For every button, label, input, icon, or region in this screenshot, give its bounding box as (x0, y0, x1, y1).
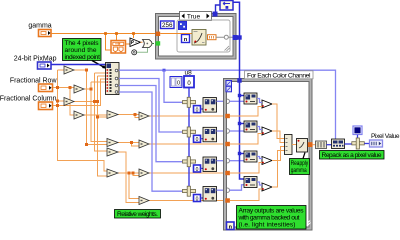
tunnel ring 4 (225, 188, 229, 192)
wire b4 to X4 (201, 197, 204, 199)
wire X4 to tunnel (217, 189, 226, 191)
svg-text:The 4 pixels: The 4 pixels (65, 40, 100, 47)
wire navy to cross5 (357, 135, 359, 138)
multiply node M1 (262, 100, 272, 108)
wire repack to cross5 (345, 143, 352, 145)
triangle node D2 (139, 140, 149, 148)
callout arrow (92, 61, 107, 69)
wire tunnel to convert (313, 144, 316, 146)
svg-text:For Each Color Channel: For Each Color Channel (247, 72, 311, 79)
unbundle node 4 pixels (106, 63, 120, 95)
wire X2 to tunnel (217, 130, 226, 132)
compare node (143, 40, 153, 48)
svg-text:0: 0 (196, 167, 199, 173)
triangle node B4 (74, 111, 84, 119)
case left tunnel gamma (156, 32, 161, 36)
svg-text:gamma: gamma (291, 168, 308, 174)
tunnel ring 2 (225, 129, 229, 133)
constant u8 array 0 (170, 76, 194, 88)
wire X1 to tunnel (217, 100, 226, 102)
coercion ring (224, 35, 228, 39)
for loop border (224, 79, 313, 231)
wire gamma (51, 34, 156, 51)
multiply node M3 (262, 157, 272, 165)
svg-text:0: 0 (196, 137, 199, 143)
lut icon I4 (244, 177, 257, 188)
wire u8 chain (188, 88, 190, 186)
svg-text:Array outputs are values: Array outputs are values (239, 208, 305, 215)
comment Array outputs (237, 206, 307, 230)
junction LUT I2 (238, 122, 244, 125)
svg-text:around the: around the (65, 47, 97, 54)
svg-text:gamma: gamma (28, 23, 51, 30)
inner frame (177, 20, 230, 52)
wire I2 to M2 (257, 127, 262, 130)
svg-text:Relative weights.: Relative weights. (117, 211, 158, 218)
wire I4 to M4 (257, 182, 262, 185)
junction dots gamma wire (104, 32, 135, 35)
wire add to gamma node (292, 144, 297, 146)
triangle node B2 (74, 85, 84, 93)
wire 24-bit PixMap (51, 64, 106, 66)
wire A1 output to v2 (74, 70, 107, 145)
triangle inner marks (66, 69, 143, 201)
wire FR branch to B4 (70, 88, 74, 116)
wire cross5 to indicator (364, 143, 369, 145)
wire A1 input (58, 69, 65, 71)
wire power to compare (141, 41, 143, 43)
constant 256 (161, 21, 175, 29)
wire I1 to M1 (257, 99, 262, 103)
wire FC (53, 79, 106, 106)
multiply node M2 (262, 127, 272, 135)
DBL output glyph (208, 35, 217, 40)
node cross Q2 (183, 127, 196, 137)
orange tunnel weight3 (225, 171, 230, 175)
wire tunnel2 to I2 (230, 130, 245, 132)
triangle node D1 (139, 112, 149, 120)
wire v1 FC trunk (58, 70, 108, 171)
junction LUT main (237, 35, 241, 39)
wire b1 to X1 (201, 108, 204, 110)
cluster icon (bundle weights) (111, 41, 126, 54)
for loop label box (245, 71, 314, 80)
wire M4 out (272, 151, 285, 188)
triangle node C2 (107, 139, 118, 147)
wire weight4 D4 out (149, 200, 226, 202)
wire weight4 to M4 (230, 189, 262, 201)
convert icon barrel (316, 141, 327, 149)
orange tunnel weight4 (225, 198, 230, 202)
wire convert to repack (327, 144, 332, 146)
wire b3 to X3 (201, 167, 204, 169)
wire weight2 to M2 (230, 134, 262, 145)
indicator Pixel Value (370, 140, 383, 147)
control Fractional Column DBL (39, 102, 53, 110)
svg-text:with gamma backed out: with gamma backed out (238, 215, 300, 222)
node cross5 repack (352, 138, 365, 149)
junction pixel plane 1 (163, 69, 166, 72)
junction LUT I1 (238, 94, 244, 97)
constant navy square (353, 126, 362, 135)
triangle node C4 (107, 169, 118, 177)
node cross Q1 (183, 97, 196, 107)
wire pixel plane 4 (119, 92, 183, 191)
repack icon (332, 139, 345, 149)
svg-text:0: 0 (196, 196, 199, 202)
junction LUT I3 (238, 152, 244, 155)
comment The 4 pixels around the indexed point (63, 39, 102, 62)
wire case out to LUT (238, 37, 240, 39)
orange tunnel weight1 (225, 114, 230, 118)
case selector tunnel (156, 41, 161, 45)
interpolate icon (192, 30, 206, 46)
reapply gamma icon (297, 139, 308, 153)
tunnel ring 1 (225, 99, 229, 103)
wire B4 out to C1 (84, 114, 107, 116)
lut icon I1 (244, 93, 257, 104)
tunnel LUT loop top (237, 78, 241, 82)
wire rotate input (216, 5, 221, 12)
wire pixel plane 2 (119, 79, 183, 133)
n terminal icon (182, 35, 190, 44)
index icon X4 (203, 187, 217, 202)
control gamma DBL (39, 30, 52, 37)
wire C4 out to D3 (118, 173, 139, 176)
wire FR to B2 (53, 87, 74, 89)
wire pixel plane 3 (119, 86, 183, 162)
case selector label True (180, 12, 212, 21)
lut icon I3 (244, 151, 257, 162)
svg-text:(i.e. light intesities): (i.e. light intesities) (239, 222, 296, 229)
wire weight3 D3 out (149, 172, 226, 174)
svg-text:Pixel Value: Pixel Value (371, 133, 400, 140)
round node R (132, 50, 137, 55)
wire LUT rotate out (233, 2, 244, 179)
index icon X2 (203, 127, 217, 142)
svg-text:indexed point: indexed point (65, 54, 101, 61)
callout reapply gamma (303, 153, 305, 159)
orange tunnel weight2 (225, 142, 230, 146)
wire weight2 D2 out (149, 143, 226, 145)
comment Relative weights (115, 210, 161, 219)
wire tunnel4 to I4 (230, 185, 245, 190)
comment Reapply gamma (290, 159, 310, 175)
wire C1 out to D1 (118, 115, 139, 118)
wire M2 out (272, 131, 285, 143)
power node x^y (130, 38, 141, 47)
for loop resize glyph (306, 221, 311, 226)
lut icon I2 (244, 121, 257, 132)
node cross Q4 (183, 186, 196, 196)
control Fractional Row DBL (39, 84, 53, 92)
svg-text:0: 0 (196, 107, 199, 113)
wire weight1 to M1 (230, 107, 262, 117)
wire gamma inside case (160, 33, 192, 35)
wire A3 input (58, 100, 65, 102)
wire weight3 to M3 (230, 163, 262, 174)
rotate 1D array icon (220, 1, 233, 11)
iteration terminal i (227, 222, 235, 230)
wire tunnel3 to I3 (230, 160, 245, 162)
comment Repack as a pixel value (320, 151, 385, 160)
triangle node A1 (64, 66, 74, 74)
wire v5 (98, 76, 108, 176)
orange tunnel loop right (308, 142, 313, 147)
triangle node D3 (139, 169, 149, 177)
svg-text:256: 256 (162, 22, 173, 29)
node cross Q3 (183, 157, 196, 167)
constant 0 b3 (194, 165, 201, 173)
tunnel ring 3 (225, 159, 229, 163)
wire X3 to tunnel (217, 160, 226, 162)
constant 0 b2 (194, 135, 201, 143)
wire M1 out (272, 104, 285, 139)
constant 0 b4 (194, 195, 201, 203)
wire plane1 drop to cross1 (164, 70, 183, 102)
orange junction dots (56, 69, 137, 175)
wire to coercion ring (216, 36, 233, 38)
triangle node C3 (107, 148, 118, 156)
case right tunnel (233, 35, 238, 40)
wire cluster to power node (126, 43, 131, 45)
wire v9 to D4 upper (129, 173, 139, 199)
wire tunnel1 to I1 (230, 100, 245, 102)
svg-text:True: True (187, 14, 201, 21)
svg-text:Reapply: Reapply (291, 161, 309, 167)
case top tunnel (213, 12, 218, 17)
multiply node M4 (262, 183, 272, 191)
compound add node (285, 135, 293, 155)
auto-index tunnels stacked (226, 81, 232, 92)
wire B2 out v3 (84, 82, 107, 142)
control 24-bit PixMap U32 (38, 62, 52, 69)
triangle node D4 (139, 197, 149, 205)
svg-text:Repack as a pixel value: Repack as a pixel value (322, 152, 382, 159)
wire v4 (95, 73, 108, 151)
wire C3 out v7 (118, 152, 139, 203)
triangle node A3 (64, 98, 74, 106)
orange weight wire network (53, 70, 226, 203)
wire M3 out (272, 147, 285, 161)
triangle node C1 (107, 111, 118, 119)
case structure border (156, 14, 237, 60)
icon ramp pattern (179, 22, 187, 30)
constant 0 b1 (194, 106, 201, 114)
svg-text:0: 0 (177, 81, 180, 87)
wire boolean to case selector (153, 43, 155, 45)
wire A3 out (74, 101, 98, 103)
wire C2 out to D2 (118, 143, 139, 147)
wire b2 to X2 (201, 138, 204, 140)
index icon X1 (203, 98, 217, 113)
wire weight1 D1 out (149, 115, 226, 117)
index icon X3 (203, 157, 217, 172)
wire I3 to M3 (257, 157, 262, 159)
wire pixel plane 1 (long route) (119, 70, 336, 139)
wire R to compare (137, 48, 148, 52)
